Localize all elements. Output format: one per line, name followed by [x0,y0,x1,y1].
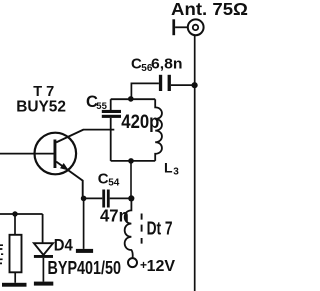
svg-text:D4: D4 [54,235,73,254]
antenna plug lead [175,26,188,28]
capacitor C56 plates [159,75,162,91]
wire collector horizontal [83,129,114,131]
wire C56 left to tank top [131,83,159,99]
wire resistor top lead [14,214,16,235]
antenna connector inner ring [193,25,198,30]
wire tank bottom to C54 node [130,161,132,199]
svg-text:BYP401/50: BYP401/50 [48,258,122,278]
transistor emitter arrow [60,163,69,171]
svg-text:54: 54 [108,178,120,189]
svg-text:Ant. 75Ω: Ant. 75Ω [171,0,248,19]
transistor collector diagonal [56,130,83,143]
node choke junction [128,195,134,201]
svg-text:420p: 420p [121,111,159,133]
wire C54 right [110,197,132,199]
capacitor C54 plates [102,190,105,208]
choke Dr7 coil [125,198,133,258]
node resistor junction [12,211,17,216]
node tank top junction [128,96,134,102]
svg-text:3: 3 [173,167,179,178]
terminal +12V circle [128,258,137,267]
svg-text:BUY52: BUY52 [16,99,66,116]
choke core dashes [141,214,143,244]
ground resistor [2,283,27,287]
ground D4 [34,282,53,286]
wire D4 top lead [42,214,44,243]
node C56/antenna junction [192,82,198,88]
capacitor C55 plates [102,110,121,113]
antenna connector outer circle [188,19,204,35]
svg-text:Dt 7: Dt 7 [147,218,173,238]
wire lower left rail [0,213,43,215]
wire resistor bottom lead [14,272,16,283]
node tank bottom junction [128,158,134,164]
svg-text:6,8n: 6,8n [151,55,183,72]
wire D4 bottom lead [42,258,44,282]
transistor base bar [54,140,57,169]
wire antenna vertical line [194,35,196,291]
ground emitter [76,249,93,253]
wire tank left upper [110,99,112,110]
wire base lead [0,153,54,155]
inductor L3 [155,99,162,161]
svg-text:C: C [98,171,109,188]
transistor emitter diagonal [56,162,82,199]
node emitter junction [81,196,87,202]
antenna plug bar [172,19,175,35]
wire tank bottom [111,160,156,162]
wire C56 right to antenna line [171,84,195,86]
wire tank left lower [110,118,112,161]
partial component marks at left edge [0,245,3,263]
diode D4 cathode bar [34,255,53,258]
wire emitter to ground [83,198,85,249]
wire C54 left [84,197,103,199]
wire tank top [111,98,156,100]
transistor Q T7 circle [35,133,77,175]
resistor body [10,235,22,272]
diode D4 triangle [34,243,53,255]
svg-text:12V: 12V [147,258,176,275]
svg-text:L: L [164,159,173,175]
